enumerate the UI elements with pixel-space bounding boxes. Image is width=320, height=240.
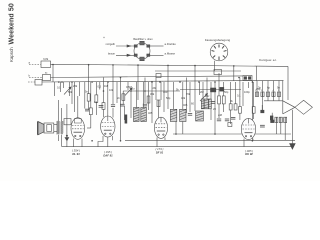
svg-text:100: 100 <box>163 90 168 94</box>
svg-text:0,5M: 0,5M <box>126 85 132 89</box>
svg-text:1M: 1M <box>104 84 108 88</box>
svg-text:6,8k: 6,8k <box>43 57 49 61</box>
svg-text:( 1R5 ): ( 1R5 ) <box>245 149 253 153</box>
svg-text:50p: 50p <box>224 90 229 94</box>
svg-text:Weekend 50: Weekend 50 <box>9 3 16 44</box>
svg-text:braun: braun <box>108 51 116 55</box>
svg-text:40k: 40k <box>181 96 186 100</box>
svg-text:kHz: kHz <box>205 94 210 98</box>
svg-text:2n: 2n <box>117 96 120 100</box>
svg-text:Fassungsbelegung: Fassungsbelegung <box>205 38 231 42</box>
svg-text:50p: 50p <box>166 96 171 100</box>
svg-text:0,1: 0,1 <box>94 100 98 104</box>
svg-text:1n: 1n <box>132 87 135 91</box>
svg-text:465: 465 <box>183 103 188 107</box>
svg-text:9p: 9p <box>277 86 280 90</box>
svg-text:100p: 100p <box>244 90 250 94</box>
svg-text:2M: 2M <box>153 86 157 90</box>
svg-text:rot/gelb: rot/gelb <box>106 42 116 46</box>
svg-text:10k: 10k <box>109 88 114 92</box>
svg-text:( 1S5 ): ( 1S5 ) <box>104 150 112 154</box>
svg-text:DF 91: DF 91 <box>156 150 164 154</box>
svg-text:5n: 5n <box>85 90 88 94</box>
svg-text:b: b <box>29 74 31 78</box>
svg-text:30k: 30k <box>150 92 155 96</box>
svg-text:25p: 25p <box>256 87 261 91</box>
svg-text:AM: AM <box>218 113 222 117</box>
svg-text:60: 60 <box>191 102 194 106</box>
svg-text:3k: 3k <box>230 99 233 103</box>
svg-text:Kapsch: Kapsch <box>9 47 14 62</box>
svg-text:a.Masse: a.Masse <box>165 51 176 55</box>
svg-text:a: a <box>29 62 31 65</box>
svg-text:6p: 6p <box>267 86 270 90</box>
svg-text:0,5: 0,5 <box>98 85 102 89</box>
svg-text:Bandfilter v. oben: Bandfilter v. oben <box>133 38 153 41</box>
svg-text:Kurzgew. a.l.: Kurzgew. a.l. <box>259 58 277 62</box>
svg-text:3: 3 <box>267 90 269 92</box>
svg-text:DAF 91: DAF 91 <box>103 154 113 158</box>
svg-text:0,1: 0,1 <box>57 86 61 90</box>
svg-text:DL 94: DL 94 <box>72 152 80 156</box>
svg-text:0,1: 0,1 <box>237 94 241 98</box>
svg-text:465: 465 <box>148 111 153 115</box>
svg-text:DK 92: DK 92 <box>245 152 253 156</box>
svg-text:4: 4 <box>273 90 275 92</box>
svg-text:50k: 50k <box>68 90 73 94</box>
svg-text:70k: 70k <box>186 92 191 96</box>
svg-text:a.Drehko: a.Drehko <box>165 42 177 46</box>
svg-text:20: 20 <box>213 107 216 111</box>
svg-text:5: 5 <box>278 90 280 92</box>
svg-text:25k: 25k <box>73 84 78 88</box>
svg-text:2M: 2M <box>200 90 204 94</box>
